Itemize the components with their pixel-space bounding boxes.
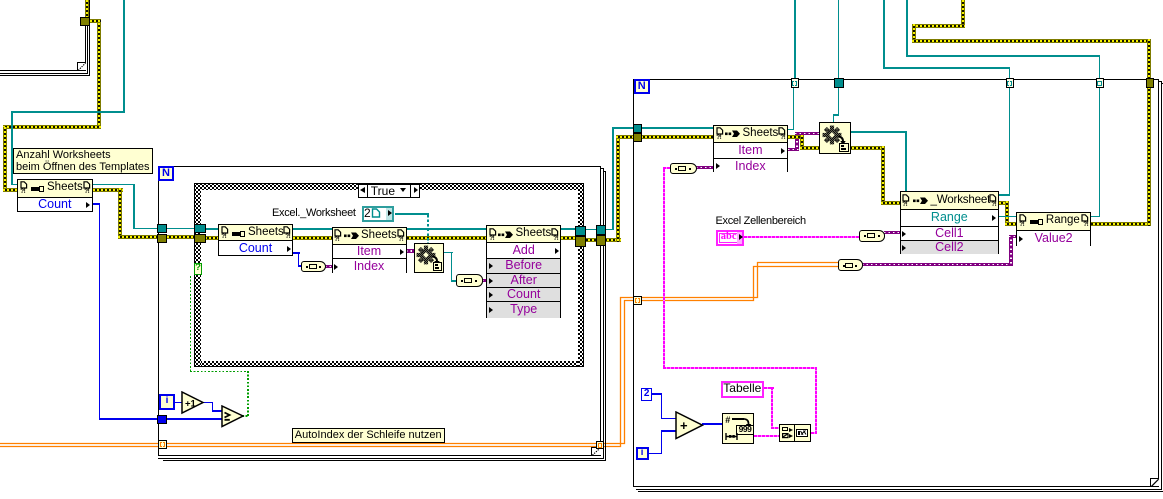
number-to-string format node (999): [722, 413, 753, 445]
left loop tunnel: orange array [] (right border): [596, 441, 605, 449]
invoke node: Sheets / Item / Index: [332, 227, 407, 273]
left loop bottom-left step lines: [158, 458, 160, 459]
left loop tunnel: olive refnum (left border): [157, 234, 167, 243]
right loop tunnel: orange array [] (left border): [633, 296, 642, 306]
olive: _Worksheet right pin under Range node up through far tunnel: [999, 201, 1009, 205]
teal from solid tunnel down into Variant-To-Data top: [838, 87, 840, 116]
olive dashed wire above right loop into far-right tunnel: [961, 0, 965, 28]
olive refnum wire across left loop / case (behind nodes): [167, 235, 195, 239]
teal refnum wire across left loop / case (behind nodes): [167, 228, 195, 230]
free label Excel Zellenbereich: [716, 215, 806, 227]
case selector label [ True ]: [358, 184, 420, 197]
magenta string: format node to concat: [754, 435, 780, 437]
property node: Sheets / Count (outer): [17, 179, 93, 212]
right loop tunnel: teal refnum (left border): [633, 124, 642, 132]
variant: Value2 oval right, up into Value2 input: [862, 263, 1013, 266]
label AutoIndex der Schleife nutzen: [292, 428, 445, 443]
case tunnel: olive refnum (right): [575, 236, 586, 247]
add node +: [675, 411, 704, 440]
teal wire: refnum constant to Variant-To-Data type input (dashed): [395, 213, 429, 215]
teal wire: Variant-To-Data output down to To-Variant oval: [444, 252, 453, 254]
blue I32 wire: Count output down to loop tunnel: [91, 203, 100, 204]
teal wires dropping from top edge into right loop: [794, 0, 796, 79]
right for-loop border: [633, 79, 1159, 488]
olive: Sheets out, under VTD, down to _Worksheet: [788, 135, 804, 139]
variant wire: oval to After input: [482, 279, 488, 282]
blue wire: inner Count to ToVariant oval: [293, 252, 300, 253]
variant: Index oval out to Index input: [696, 166, 715, 169]
string constant Tabelle: [721, 381, 764, 398]
left loop tunnel: blue count (left border): [157, 415, 167, 424]
invoke node: _Worksheet / Range / Cell1 / Cell2: [900, 191, 1000, 254]
right loop tunnel: teal [] (top border, x=790): [791, 78, 800, 88]
green boolean dotted wire from >= up to selector: [190, 276, 192, 372]
right loop tunnel: teal [] (top border, x=1005): [1006, 78, 1015, 88]
string constant abc: [716, 230, 744, 246]
blue wires inside left loop: [167, 418, 222, 419]
tip label: Anzahl Worksheets: [13, 148, 153, 175]
left loop tunnel: teal refnum (right border): [596, 225, 607, 235]
magenta string: abc to Cell1 oval: [744, 236, 859, 238]
right loop bottom-right fold corner: [1150, 478, 1159, 486]
left for-loop border: [158, 166, 601, 456]
right loop tunnel: solid teal (top border, x=834): [834, 78, 843, 88]
teal: Variant-To-Data out to _Worksheet: [851, 131, 908, 133]
teal refnum wire from top, left, down to Sheets property node: [123, 0, 125, 113]
olive from left tunnel to Sheets node: [641, 135, 713, 139]
N count terminal of right loop: [634, 79, 650, 94]
left loop tunnel: orange array [] (left border): [158, 440, 168, 449]
blue wires right loop: [652, 393, 662, 394]
teal wire out of Sheets node to left loop tunnel: [93, 184, 135, 186]
case selector terminal [?]: [194, 263, 203, 275]
increment node +1: [181, 391, 205, 415]
case structure checkered border: [194, 183, 583, 189]
numeric constant 2: [641, 388, 652, 401]
inner property node: Sheets / Count: [218, 224, 293, 256]
teal from left tunnel to Sheets node: [641, 127, 713, 129]
invoke node: Sheets / Add / Before / After / Count / Type: [486, 225, 561, 318]
teal: Range row output to Range property node: [999, 216, 1018, 218]
To-Variant oval feeding Value2: [838, 259, 863, 271]
N count terminal of left loop: [158, 166, 174, 182]
Variant To Data node (left): [414, 243, 445, 274]
right loop shadow lines: [1161, 81, 1162, 490]
property node: Range / Value2: [1016, 212, 1091, 246]
To-Variant oval feeding Index (right loop): [670, 163, 697, 174]
svg-text:+1: +1: [185, 399, 197, 410]
olive junction square on frame: [80, 17, 90, 26]
left loop shadow lines right: [603, 168, 604, 459]
To-Variant coercion oval (into After): [456, 274, 483, 287]
greater-or-equal node: [221, 405, 245, 428]
automation refnum constant (Excel._Worksheet): [362, 206, 394, 223]
orange array wire (1D DBL array) from left edge under left loop, up between loops, into right loop to To-Variant: [0, 263, 838, 447]
concatenate strings node: [779, 424, 812, 441]
To-Variant oval feeding Cell1: [859, 230, 886, 242]
To-Variant coercion oval (Count to Index): [301, 261, 327, 272]
svg-text:+: +: [680, 418, 688, 433]
fold corner of top-left frame: [77, 62, 86, 70]
teal: Range node right pin up through tunnel: [1091, 216, 1101, 218]
variant wire: Item output to Variant-To-Data: [406, 249, 415, 252]
teal from [] tunnel down to _Worksheet right pin: [1009, 87, 1011, 196]
top-left partial structure frame (bottom-right corner of an outer loop): [85, 0, 86, 71]
olive dashed wire: junction right, down, left, down to Sheets property node: [90, 19, 101, 23]
teal wire from left loop to right loop tunnels: [607, 229, 614, 231]
variant: Item out up to Variant-To-Data: [788, 148, 799, 151]
olive wire out of Sheets node to left loop tunnel: [93, 188, 123, 192]
olive wire from left loop to right loop tunnels: [607, 238, 621, 242]
case tunnel: teal refnum (left): [194, 224, 205, 234]
left loop tunnel: teal refnum (left border): [157, 224, 167, 234]
teal: Sheets title out up through [] tunnel: [788, 129, 795, 131]
invoke node: Sheets / Item / Index (right loop): [713, 125, 788, 172]
case tunnel: olive refnum (left): [194, 234, 205, 243]
magenta string wire: concat output up, left, up into Index oval: [663, 169, 665, 369]
left loop bottom-right fold corner: [591, 447, 600, 455]
right loop tunnel: olive refnum (left border): [633, 133, 642, 142]
magenta string: Tabelle down to concat: [764, 387, 774, 389]
Variant To Data node (right): [819, 122, 851, 154]
case tunnel: teal refnum (right): [575, 226, 586, 237]
free label Excel._Worksheet: [272, 207, 356, 219]
variant: Cell1 oval to Cell1 input: [884, 231, 900, 234]
variant wire: oval to Index input of invoke node: [325, 265, 333, 268]
left loop tunnel: olive refnum (right border): [596, 235, 607, 245]
right loop tunnel: teal [] (top border, x=1095): [1096, 78, 1105, 88]
right loop tunnel: solid olive (top border, x=1145): [1146, 78, 1155, 88]
iteration terminal i (right loop): [636, 447, 649, 460]
olive dashed refnum wire from top into junction square: [85, 0, 89, 17]
left loop shadow lines bottom: [160, 458, 604, 459]
iteration terminal i (left loop): [159, 394, 175, 410]
left loop top-right step lines: [600, 168, 603, 169]
